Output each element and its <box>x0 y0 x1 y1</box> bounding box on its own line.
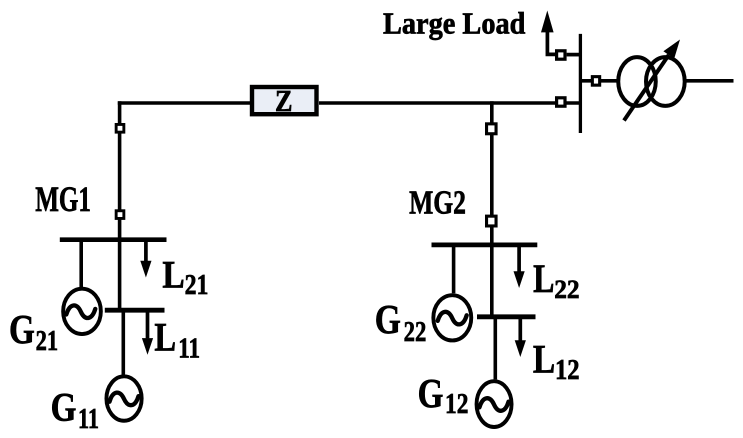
svg-text:G: G <box>418 370 444 416</box>
generator G11 (circle with sine) <box>106 376 141 420</box>
breaker SW3 (MG2 feeder, upper) <box>487 124 497 134</box>
breaker SW6 (Large Load feeder) <box>557 51 565 59</box>
label L11 <box>154 314 200 364</box>
breaker SW5 (tie line to PCC bus) <box>557 98 565 106</box>
breaker SW7 (transformer branch) <box>592 77 599 86</box>
svg-text:Large Load: Large Load <box>383 6 525 40</box>
generator G21 (circle with sine) <box>63 289 101 334</box>
svg-text:L: L <box>154 314 176 359</box>
breaker SW1 (MG1 feeder, upper) <box>116 124 124 132</box>
bus: MG1 lower busbar <box>105 308 165 313</box>
svg-text:G: G <box>375 296 401 342</box>
svg-text:MG1: MG1 <box>35 179 91 219</box>
breaker SW4 (MG2 feeder, lower) <box>487 216 497 226</box>
svg-text:L: L <box>162 252 184 296</box>
svg-text:22: 22 <box>404 317 427 348</box>
load arrow: Large Load feeder <box>541 11 580 55</box>
load L11 arrow <box>142 311 153 355</box>
generator G22 (circle with sine) <box>433 295 471 340</box>
svg-text:L: L <box>533 256 554 301</box>
transformer T1 (OLTC, two overlapping circles with arrow) <box>618 40 684 121</box>
bus: PCC / utility bus (vertical bar) <box>579 34 582 133</box>
svg-text:12: 12 <box>555 355 580 386</box>
wire: main horizontal tie line, right segment to PCC bus <box>319 101 580 105</box>
load L22 arrow <box>514 246 525 288</box>
bus: MG2 lower busbar <box>477 314 536 319</box>
wire: bus to transformer <box>582 79 617 83</box>
svg-text:12: 12 <box>445 389 468 420</box>
wire: lower busbar to G12 <box>493 317 497 380</box>
label G22 <box>375 296 427 348</box>
svg-text:11: 11 <box>78 404 99 435</box>
wire: G22 connection drop <box>452 245 456 293</box>
wire: transformer to grid (right) <box>686 79 733 83</box>
svg-text:11: 11 <box>178 333 200 364</box>
label L12 <box>533 336 580 386</box>
svg-text:22: 22 <box>554 274 579 304</box>
load L21 arrow <box>140 241 151 278</box>
svg-text:Z: Z <box>275 84 293 118</box>
breaker SW2 (MG1 feeder, lower) <box>116 211 124 219</box>
label: MG2 <box>409 184 466 221</box>
wire: MG2 feeder vertical <box>490 101 494 245</box>
svg-text:L: L <box>533 336 555 381</box>
label G12 <box>418 370 469 420</box>
wire: MG1 feeder vertical <box>118 101 122 240</box>
label: Large Load <box>383 6 525 40</box>
impedance Z (tie-line impedance box) <box>252 84 317 118</box>
label G21 <box>9 306 58 357</box>
label G11 <box>51 385 99 435</box>
bus: MG1 upper busbar <box>60 237 167 242</box>
wire: MG2 bus link (upper to lower busbar) <box>490 245 494 317</box>
generator G12 (circle with sine) <box>477 381 512 427</box>
svg-text:21: 21 <box>185 270 209 301</box>
label L21 <box>162 252 208 301</box>
bus: MG2 upper busbar <box>432 243 538 248</box>
load L12 arrow <box>515 318 526 357</box>
label: MG1 <box>35 179 91 219</box>
wire: lower busbar to G11 <box>122 310 126 375</box>
wire: main horizontal tie line, left segment <box>118 101 250 105</box>
label L22 <box>533 256 580 304</box>
svg-text:21: 21 <box>36 326 59 357</box>
svg-text:G: G <box>9 306 35 352</box>
svg-text:MG2: MG2 <box>409 184 466 221</box>
wire: MG1 bus link (upper to lower busbar) <box>118 240 122 311</box>
wire: G21 connection drop <box>79 240 83 287</box>
svg-text:G: G <box>51 385 77 430</box>
